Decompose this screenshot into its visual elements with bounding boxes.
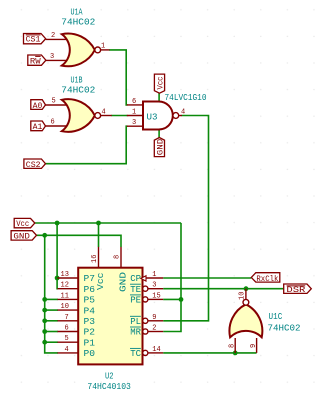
pin 1 of U1A [101, 49, 110, 51]
svg-text:A0: A0 [33, 101, 43, 111]
wire GND rail stub P1 [45, 341, 58, 343]
svg-text:GND: GND [155, 139, 165, 156]
pin 7 P3 [58, 320, 79, 322]
svg-text:15: 15 [152, 292, 160, 300]
wire GND rail horizontal to U2 pin8 [37, 235, 122, 247]
svg-text:P3: P3 [84, 316, 96, 327]
pin 2 MR bubble [143, 329, 148, 334]
svg-text:6: 6 [51, 119, 55, 127]
wire GND rail stub P5 [45, 298, 58, 300]
svg-text:9: 9 [250, 344, 258, 348]
junction dot GND rail [42, 233, 47, 238]
wire Vcc to U2 pin16 [98, 223, 100, 247]
pin 15 PE bubble [143, 297, 148, 302]
wire GND rail stub P3 [45, 320, 58, 322]
global label RW [28, 55, 46, 66]
svg-text:10: 10 [61, 303, 69, 311]
pin 9 PL bubble [143, 318, 148, 323]
wire GND rail stub P4 [45, 309, 58, 311]
U1A gate body [62, 34, 95, 67]
pin 4 of U3 [179, 115, 182, 117]
pin 6 P2 [58, 331, 79, 333]
svg-text:CS2: CS2 [26, 160, 41, 170]
svg-text:PL: PL [130, 316, 141, 327]
svg-text:74HC40103: 74HC40103 [87, 381, 131, 392]
pin 8 GND top [120, 247, 122, 268]
pin 3 TE bubble [143, 286, 148, 291]
NAND gate U3 [127, 92, 207, 130]
pin 3 of U1A [46, 59, 66, 61]
junction dot U1C out / DSR [244, 286, 249, 291]
global label A0 [31, 100, 46, 111]
wire Vcc rail horizontal [35, 222, 181, 224]
junction dot P5 [42, 297, 47, 302]
pin 8 of U1C [234, 338, 236, 353]
svg-text:Vcc: Vcc [155, 77, 165, 90]
svg-text:CS1: CS1 [26, 35, 41, 45]
IC U2 74HC40103 [58, 247, 164, 392]
wire U1B output to U3 pin 1 [111, 115, 127, 117]
wire TC to U1C inputs [163, 352, 256, 354]
svg-text:1: 1 [132, 109, 136, 117]
global label Vcc (left) [14, 218, 35, 229]
pin 1 CP with arrow [146, 277, 163, 279]
svg-text:Vcc: Vcc [16, 219, 29, 229]
svg-text:74HC02: 74HC02 [61, 85, 95, 96]
svg-text:P4: P4 [84, 305, 96, 316]
svg-text:PE: PE [130, 295, 141, 306]
svg-text:2: 2 [51, 32, 55, 40]
svg-text:10: 10 [239, 292, 247, 300]
svg-text:A1: A1 [33, 122, 43, 132]
NOR gate U1A [46, 7, 110, 67]
svg-text:5: 5 [52, 98, 56, 106]
svg-text:GND: GND [13, 232, 30, 242]
svg-text:8: 8 [229, 344, 237, 348]
svg-text:12: 12 [61, 282, 69, 290]
svg-text:P5: P5 [84, 295, 96, 306]
pin 12 P6 [58, 288, 79, 290]
global label Vcc (above U3) [154, 74, 165, 93]
wire U3 Vcc [158, 93, 160, 102]
pin 1 of U3 [127, 115, 144, 117]
U1C output bubble [243, 299, 249, 305]
pin 5 P1 [58, 341, 79, 343]
svg-text:74HC02: 74HC02 [61, 17, 95, 28]
pin 5 of U1B [46, 104, 67, 106]
svg-text:5: 5 [65, 335, 69, 343]
junction dot P4 [42, 308, 47, 313]
wire U3 output to U2 PL [163, 116, 208, 321]
svg-text:GND: GND [118, 272, 129, 292]
svg-text:3: 3 [152, 282, 156, 290]
global label CS1 [24, 34, 46, 45]
pin 3 of U3 [127, 125, 144, 127]
wire CS2 to U3 pin 3 [46, 126, 128, 164]
wire GND rail down P5-P0 [45, 235, 58, 353]
junction dot P7 [55, 276, 60, 281]
wire Vcc rail down to PE and MR [163, 223, 181, 332]
wire GND rail stub P2 [45, 331, 58, 333]
global label RxClk [251, 273, 279, 284]
svg-text:P2: P2 [84, 327, 96, 338]
U3 output bubble [173, 113, 179, 119]
svg-text:U3: U3 [147, 112, 158, 123]
svg-text:74LVC1G10: 74LVC1G10 [165, 92, 207, 103]
global label DSR [284, 284, 312, 295]
svg-text:8: 8 [114, 255, 122, 259]
wire U3 GND [158, 129, 160, 137]
svg-text:DSR: DSR [286, 285, 305, 295]
pin 14 TC bubble [143, 350, 148, 355]
svg-text:9: 9 [152, 314, 156, 322]
svg-text:74HC02: 74HC02 [268, 323, 301, 334]
pin 10 of U1C [245, 289, 247, 300]
NOR gate U1C (rotated, output up) [229, 289, 301, 353]
svg-text:4: 4 [65, 346, 69, 354]
svg-text:14: 14 [152, 346, 160, 354]
svg-text:Vcc: Vcc [95, 273, 106, 291]
svg-text:RxClk: RxClk [256, 274, 278, 284]
global label CS2 [24, 159, 46, 170]
U1B gate body [62, 99, 95, 132]
U3 gate body [143, 102, 173, 130]
wire CP to RxClk [163, 277, 251, 279]
pin 6 of U1B [46, 125, 67, 127]
svg-text:RW: RW [30, 56, 42, 66]
svg-text:11: 11 [61, 292, 69, 300]
svg-text:3: 3 [50, 53, 54, 61]
svg-text:U2: U2 [105, 371, 114, 382]
svg-text:7: 7 [65, 314, 69, 322]
pin 6 of U3 [127, 104, 144, 106]
junction dot P1 [42, 340, 47, 345]
pin 4 of U1B [101, 115, 112, 117]
pin 2 of U1A [46, 38, 66, 40]
svg-text:P7: P7 [84, 273, 96, 284]
wire PE to Vcc rail [163, 298, 181, 300]
svg-text:TE: TE [130, 284, 141, 295]
pin 16 Vcc top [98, 247, 100, 268]
junction dot Vcc/pin16 [96, 221, 101, 226]
wire TE to DSR [163, 288, 284, 290]
U1C gate body [229, 304, 262, 337]
svg-text:P1: P1 [84, 337, 96, 348]
global label A1 [31, 121, 46, 132]
svg-text:MR: MR [130, 327, 141, 338]
global label GND (below U3) [154, 138, 165, 157]
pin 13 P7 [58, 277, 79, 279]
svg-text:CP: CP [130, 273, 141, 284]
U1B output bubble [95, 113, 101, 119]
junction dot PE/Vcc rail [179, 297, 184, 302]
junction dot U1C in8 / TC [233, 351, 238, 356]
NOR gate U1B [46, 75, 112, 132]
svg-text:3: 3 [132, 119, 136, 127]
svg-text:P0: P0 [84, 348, 96, 359]
wire U1A output to U3 pin 6 [109, 50, 128, 105]
U1A output bubble [95, 47, 101, 53]
svg-text:13: 13 [61, 271, 69, 279]
svg-text:1: 1 [101, 43, 105, 51]
junction dot Vcc/P7P6 rail [55, 221, 60, 226]
svg-text:4: 4 [181, 109, 185, 117]
pin 9 of U1C [256, 338, 258, 353]
pin 4 P0 [58, 352, 79, 354]
junction dot P3 [42, 318, 47, 323]
wire Vcc rail down to P7 P6 [56, 223, 59, 289]
svg-text:TC: TC [130, 348, 141, 359]
svg-text:4: 4 [102, 109, 106, 117]
pin 11 P5 [58, 298, 79, 300]
svg-text:16: 16 [91, 255, 99, 263]
junction dot P2 [42, 329, 47, 334]
svg-text:6: 6 [65, 325, 69, 333]
svg-text:U1C: U1C [269, 311, 283, 322]
global label GND (left) [11, 231, 36, 242]
U2 body [78, 268, 142, 365]
svg-text:1: 1 [152, 271, 156, 279]
svg-text:2: 2 [152, 325, 156, 333]
pin 10 P4 [58, 309, 79, 311]
svg-text:6: 6 [132, 98, 136, 106]
svg-text:P6: P6 [84, 284, 96, 295]
